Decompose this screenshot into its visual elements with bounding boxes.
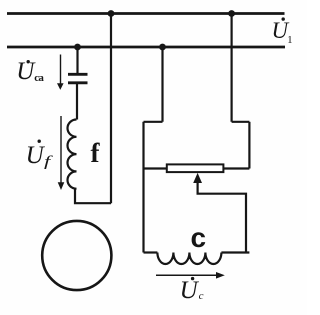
label U_c dot <box>191 277 194 280</box>
label U_1 dot <box>282 17 285 20</box>
wire : right jog at y=121.8 <box>232 121 250 123</box>
node : junction dot on line 2 at x=162.5 <box>159 44 166 51</box>
capacitor Ca : top plate <box>68 73 88 76</box>
node : junction dot on line 1 at x=231.6 <box>228 10 235 17</box>
resistor (rheostat body) <box>167 164 224 172</box>
arrow for U_c (right) <box>156 274 218 276</box>
capacitor Ca : bottom plate <box>68 81 88 84</box>
wire : vertical from line1 down to bottom of f branch <box>110 14 112 204</box>
label Uc <box>180 277 204 305</box>
label Uf <box>26 142 49 171</box>
wire : vertical B from line1 dot down crossing line2 <box>231 14 233 122</box>
wiper arrow of rheostat <box>193 173 202 183</box>
wire : capacitor bottom lead <box>76 84 78 120</box>
label U_f dot <box>38 140 41 143</box>
wire : wiper lead down, right and down to c-section bottom <box>198 182 246 253</box>
wire : left outer vertical down to c-section bottom <box>142 122 144 253</box>
inductor c : winding (4 down bumps) <box>157 253 221 265</box>
label U1 <box>272 18 293 46</box>
label Uca <box>16 58 43 86</box>
wire : left jog at y=121.8 <box>144 121 163 123</box>
wire : capacitor top lead <box>76 47 78 74</box>
wire : vertical A from line2 dot down <box>161 47 163 122</box>
wire : bus line 2 (second supply line) <box>7 46 285 49</box>
label c (control winding) <box>191 222 207 254</box>
wire : inductor f bottom lead and return to vertical <box>75 189 111 204</box>
wire : bottom edge left of coil c <box>144 251 158 253</box>
wire : bus line 1 (top supply line) <box>7 12 285 15</box>
wire : right outer vertical down to resistor level <box>248 122 250 169</box>
label f (field winding) <box>91 138 100 169</box>
label U_ca dot <box>27 60 30 63</box>
motor circle M <box>42 221 111 290</box>
node : junction dot on line 1 at x=111 <box>108 10 115 17</box>
node : junction dot on line 2 at x=77.5 <box>74 44 81 51</box>
inductor f : winding (4 left bumps) <box>68 120 77 189</box>
arrow for U_f (down) <box>60 116 62 183</box>
wire : right lead out of rheostat <box>223 167 249 169</box>
wire : left lead into rheostat <box>144 167 167 169</box>
arrow for U_ca (down) <box>60 55 62 85</box>
wire : bottom edge right of coil c <box>221 251 249 253</box>
